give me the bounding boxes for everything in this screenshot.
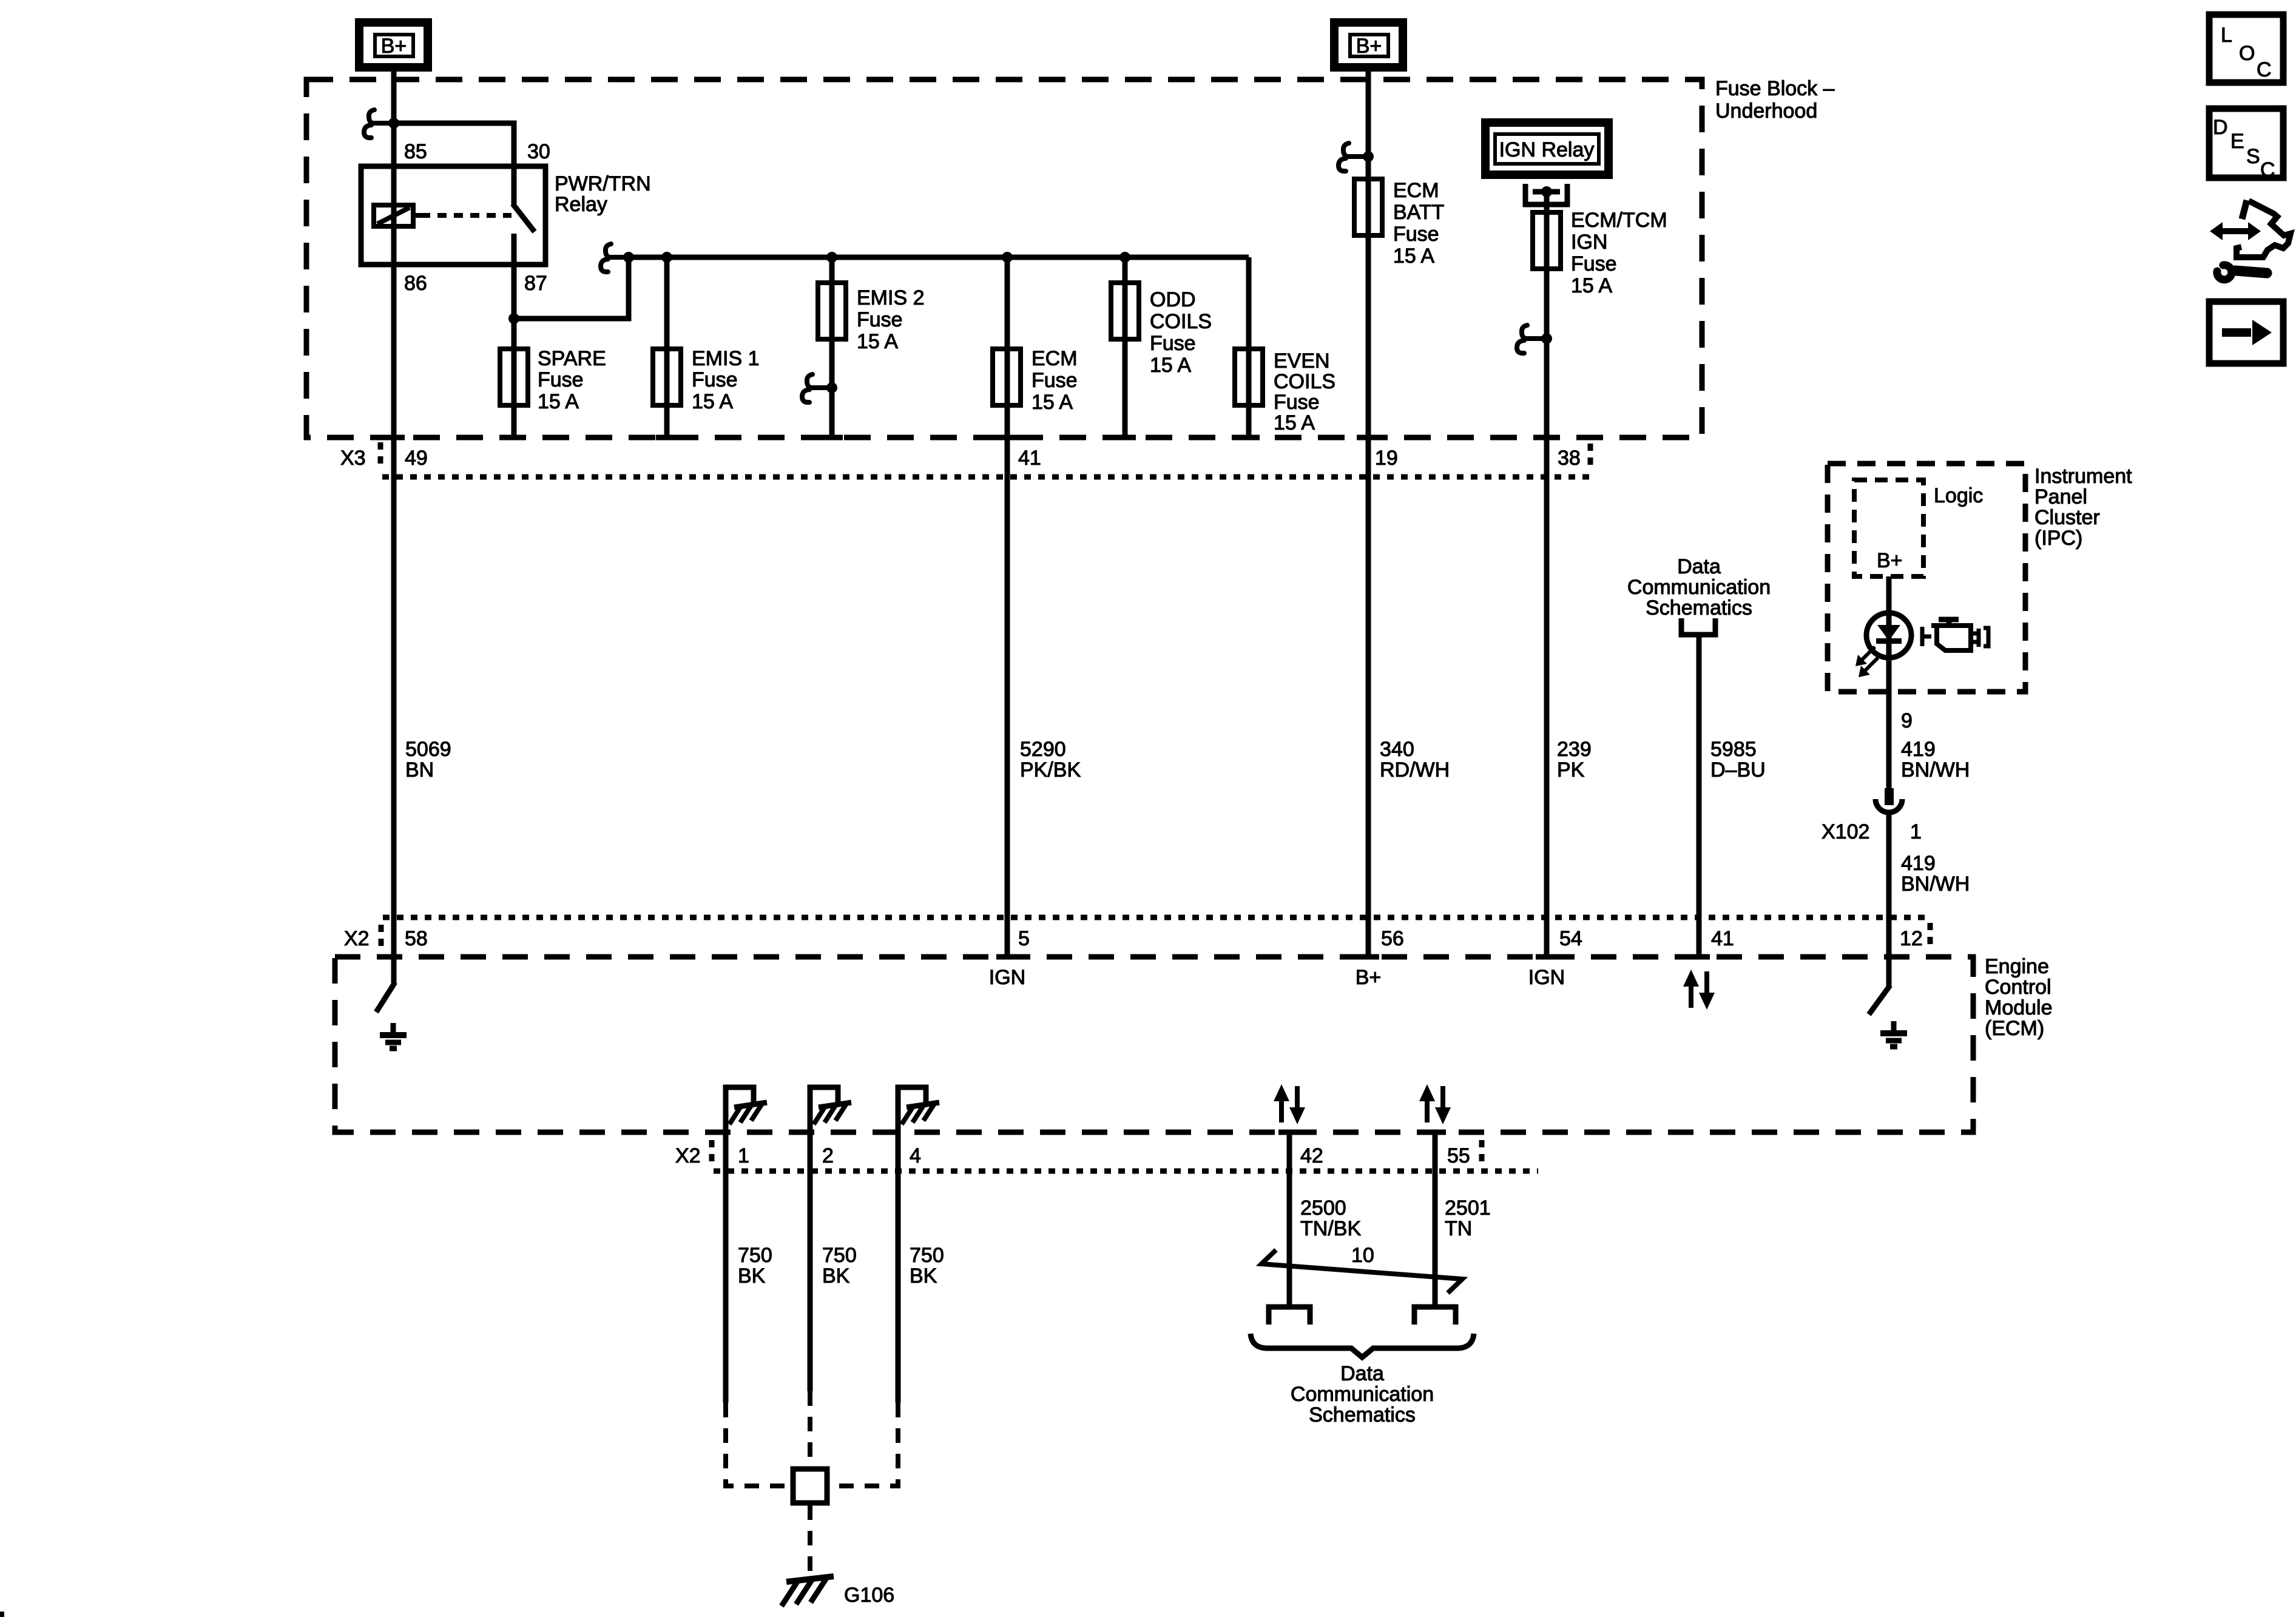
border tick at X2 pin 55 <box>1424 1130 1446 1135</box>
fuse F2 EMIS 1 15A <box>653 347 759 413</box>
ECM internal switch to ground at pin 12 <box>1869 957 1890 1014</box>
svg-text:IGN: IGN <box>1528 966 1565 989</box>
svg-text:EMIS 2: EMIS 2 <box>857 286 924 309</box>
wire label circuit 5985 D-BU <box>1710 738 1766 781</box>
icon DESC box <box>2209 109 2283 181</box>
svg-text:1: 1 <box>1910 820 1922 843</box>
svg-text:15 A: 15 A <box>1393 245 1434 268</box>
chassis ground symbol pin 4 <box>902 1102 939 1124</box>
wire label circuit 239 PK <box>1557 738 1592 781</box>
svg-text:X2: X2 <box>344 927 370 950</box>
wire bus through ECM fuse down to X2 pin 5 <box>1005 257 1010 957</box>
svg-text:41: 41 <box>1018 447 1041 470</box>
wire label circuit 419 BN/WH (lower) <box>1901 852 1970 896</box>
svg-text:S: S <box>2246 145 2260 168</box>
junction node bus/ECM fuse <box>1002 252 1013 263</box>
svg-text:B+: B+ <box>1877 549 1903 572</box>
svg-text:Panel: Panel <box>2034 485 2087 508</box>
dashed ground wire pin 1 to splice <box>726 1403 791 1486</box>
svg-text:B+: B+ <box>1356 35 1382 58</box>
svg-text:(ECM): (ECM) <box>1985 1017 2044 1040</box>
border tick at EMIS2 fuse wire end <box>821 435 843 441</box>
clip connector below ECM/TCM IGN fuse <box>1517 325 1547 353</box>
svg-text:419: 419 <box>1901 738 1936 761</box>
data arrows at pin 55 <box>1419 1084 1451 1124</box>
clip connector below EMIS2 fuse <box>802 374 832 402</box>
fuse block dashed border <box>306 77 1835 437</box>
wire IGN relay output through ECM/TCM IGN fuse to X2 pin 54 <box>1544 192 1550 957</box>
wire 87 branch to feed bus <box>514 257 629 319</box>
icon forward arrow box <box>2209 302 2283 363</box>
svg-text:ECM: ECM <box>1032 347 1078 370</box>
wire X2 pin 55 to data link <box>1433 1132 1438 1305</box>
svg-text:PWR/TRN: PWR/TRN <box>555 172 651 195</box>
ground symbol at pin 12 switch <box>1880 1021 1907 1047</box>
icon diagnostic connector with double arrow and wrench <box>2210 200 2291 280</box>
svg-text:58: 58 <box>405 927 428 950</box>
svg-text:5: 5 <box>1018 927 1030 950</box>
svg-text:38: 38 <box>1558 447 1581 470</box>
dashed ground wire pin 4 to splice <box>829 1403 898 1486</box>
svg-text:15 A: 15 A <box>538 390 579 413</box>
border tick at ODD COILS fuse wire end <box>1114 435 1136 441</box>
svg-text:Communication: Communication <box>1627 576 1771 599</box>
svg-text:Logic: Logic <box>1934 484 1983 507</box>
fuse F5 ODD COILS 15A <box>1111 283 1212 377</box>
svg-text:9: 9 <box>1901 709 1913 732</box>
wire bus right end to EVEN COILS fuse to X3 <box>1246 257 1252 437</box>
svg-text:BK: BK <box>822 1264 850 1288</box>
svg-text:19: 19 <box>1375 447 1398 470</box>
svg-text:340: 340 <box>1380 738 1414 761</box>
svg-text:Module: Module <box>1985 996 2053 1019</box>
svg-text:Data: Data <box>1340 1362 1384 1385</box>
border tick at X2 pin 56 <box>1357 954 1379 960</box>
svg-text:C: C <box>2257 58 2272 81</box>
border tick at X2 pin 41 <box>1688 954 1710 960</box>
wire label circuit 2500 TN/BK <box>1300 1197 1361 1240</box>
IGN relay output socket symbol <box>1523 184 1570 207</box>
border tick at X3 pin 38 <box>1535 435 1557 441</box>
svg-text:BATT: BATT <box>1393 201 1444 224</box>
svg-text:5985: 5985 <box>1710 738 1757 761</box>
wire label circuit 750 BK (pin 2) <box>822 1244 857 1288</box>
svg-text:85: 85 <box>404 140 427 163</box>
wire 5985 to X2 pin 41 <box>1697 635 1702 957</box>
svg-text:IGN: IGN <box>1571 231 1607 254</box>
svg-text:15 A: 15 A <box>1274 411 1315 434</box>
relay coil-contact dashed link <box>421 213 512 218</box>
connector X3 of fuse block <box>340 442 1590 477</box>
svg-text:2: 2 <box>822 1144 834 1167</box>
svg-text:BN/WH: BN/WH <box>1901 873 1970 896</box>
junction node at pin 85 branch <box>388 118 399 129</box>
svg-text:2501: 2501 <box>1445 1197 1491 1220</box>
svg-text:750: 750 <box>738 1244 772 1267</box>
svg-text:Cluster: Cluster <box>2034 506 2100 529</box>
svg-text:ECM: ECM <box>1393 179 1439 202</box>
junction node IGN relay output <box>1541 186 1552 197</box>
connector X2 of ECM (top row) <box>344 917 1930 951</box>
svg-text:X2: X2 <box>675 1144 701 1167</box>
svg-text:ECM/TCM: ECM/TCM <box>1571 209 1667 232</box>
wire X2 pin 42 to data link <box>1287 1132 1292 1305</box>
socket terminal at wire 55 end <box>1414 1307 1456 1325</box>
junction node bus/riser <box>623 252 634 263</box>
wire label circuit 750 BK (pin 1) <box>738 1244 772 1288</box>
ground symbol at pin 58 switch <box>380 1023 407 1048</box>
svg-text:Communication: Communication <box>1291 1383 1434 1406</box>
border tick at X3 pin 49 <box>383 435 405 441</box>
ground G106 chassis symbol <box>782 1576 894 1607</box>
svg-text:5069: 5069 <box>405 738 451 761</box>
svg-text:RD/WH: RD/WH <box>1380 758 1450 781</box>
svg-text:49: 49 <box>405 447 428 470</box>
border tick at X3 pin 41 <box>996 435 1018 441</box>
svg-text:B+: B+ <box>1356 966 1382 989</box>
svg-text:2500: 2500 <box>1300 1197 1346 1220</box>
svg-text:EMIS 1: EMIS 1 <box>692 347 759 370</box>
dashed wire splice to G106 <box>808 1505 812 1576</box>
svg-text:B+: B+ <box>381 35 407 58</box>
chassis ground symbol pin 2 <box>814 1102 851 1124</box>
ECM internal ground lead pin 4 <box>898 1087 926 1403</box>
svg-text:12: 12 <box>1900 927 1923 950</box>
off-page bracket under Data Communication Schematics <box>1681 618 1715 635</box>
wire B+ through ECM BATT fuse down to X2 pin 56 <box>1366 64 1371 957</box>
connector X2 of ECM (bottom row) <box>675 1140 1538 1171</box>
svg-text:Fuse: Fuse <box>692 368 738 391</box>
svg-text:D–BU: D–BU <box>1710 758 1766 781</box>
svg-text:Relay: Relay <box>555 193 607 216</box>
svg-text:419: 419 <box>1901 852 1936 875</box>
wire label circuit 340 RD/WH <box>1380 738 1450 781</box>
junction node below EMIS2 <box>826 382 837 393</box>
wire label circuit 5290 PK/BK <box>1020 738 1081 781</box>
junction node above ECM BATT fuse <box>1363 151 1374 162</box>
svg-text:15 A: 15 A <box>1571 274 1612 297</box>
svg-text:15 A: 15 A <box>692 390 733 413</box>
svg-text:G106: G106 <box>844 1584 894 1607</box>
svg-text:O: O <box>2239 42 2255 65</box>
fuse F4 ECM 15A <box>993 347 1078 414</box>
svg-text:41: 41 <box>1711 927 1734 950</box>
svg-text:BN: BN <box>405 758 434 781</box>
svg-text:TN/BK: TN/BK <box>1300 1217 1361 1240</box>
icon LOC box <box>2209 15 2283 83</box>
svg-text:BK: BK <box>910 1264 937 1288</box>
svg-text:239: 239 <box>1557 738 1592 761</box>
svg-text:15 A: 15 A <box>1150 354 1191 377</box>
junction node bus/ODD COILS <box>1119 252 1130 263</box>
svg-text:PK: PK <box>1557 758 1585 781</box>
relay K: PWR/TRN Relay box <box>361 166 651 265</box>
svg-text:Fuse: Fuse <box>538 368 584 391</box>
svg-text:5290: 5290 <box>1020 738 1066 761</box>
svg-text:BK: BK <box>738 1264 766 1288</box>
border tick at X2 pin 5 <box>996 954 1018 960</box>
border tick at X2 pin 54 <box>1536 954 1558 960</box>
svg-text:Schematics: Schematics <box>1309 1403 1416 1426</box>
border tick at X2 pin 42 <box>1278 1130 1300 1135</box>
svg-text:30: 30 <box>527 140 550 163</box>
svg-text:Fuse: Fuse <box>1150 332 1196 355</box>
svg-text:C: C <box>2260 158 2275 181</box>
svg-text:1: 1 <box>738 1144 749 1167</box>
socket terminal at wire 42 end <box>1269 1307 1310 1325</box>
svg-text:E: E <box>2230 130 2244 153</box>
svg-text:Fuse: Fuse <box>1274 391 1320 414</box>
junction node bus/EMIS2 <box>826 252 837 263</box>
junction node at 87 branch <box>508 313 519 324</box>
wire label circuit 419 BN/WH (upper) <box>1901 738 1970 781</box>
clip connector above ECM BATT fuse <box>1339 143 1368 171</box>
svg-text:Engine: Engine <box>1985 955 2049 978</box>
data arrows at pin 41 <box>1683 970 1715 1010</box>
wire bus to EMIS1 fuse to X3 <box>664 257 670 437</box>
B+ power symbol (right) <box>1334 22 1403 67</box>
IPC dashed box <box>1828 464 2132 692</box>
junction node below ECM/TCM IGN fuse <box>1541 333 1552 344</box>
svg-text:Schematics: Schematics <box>1646 596 1752 619</box>
clip connector at relay pin 85 <box>364 110 394 138</box>
wire jumper from 85 node to relay pin 30 <box>394 123 514 169</box>
chassis ground symbol pin 1 <box>729 1102 767 1124</box>
fuse F8 ECM/TCM IGN 15A <box>1533 209 1667 297</box>
svg-text:PK/BK: PK/BK <box>1020 758 1081 781</box>
border tick at EMIS1 fuse wire end <box>656 435 678 441</box>
svg-text:IGN: IGN <box>989 966 1025 989</box>
svg-text:EVEN: EVEN <box>1274 349 1330 373</box>
svg-text:42: 42 <box>1300 1144 1323 1167</box>
svg-text:COILS: COILS <box>1150 310 1212 333</box>
relay coil <box>374 205 421 226</box>
svg-text:L: L <box>2221 24 2232 47</box>
ECM dashed box <box>335 955 2053 1132</box>
border tick at SPARE fuse wire end <box>502 435 524 441</box>
fuse F3 EMIS 2 15A <box>818 283 924 353</box>
wire X102 to X2 pin 12 <box>1886 812 1892 957</box>
in-line connector X102 <box>1822 788 1922 843</box>
ECM internal ground lead pin 1 <box>726 1087 754 1403</box>
svg-text:Fuse: Fuse <box>1393 223 1439 246</box>
relay switch blade (pin 30 to 87) <box>513 169 535 265</box>
svg-text:(IPC): (IPC) <box>2034 527 2082 550</box>
clip connector at feed bus left end <box>606 244 611 257</box>
node label Data Communication Schematics (bottom) <box>1291 1362 1434 1426</box>
ECM internal switch to ground at pin 58 <box>376 957 395 1012</box>
twisted pair symbol <box>1261 1250 1462 1293</box>
wire label circuit 2501 TN <box>1445 1197 1491 1240</box>
svg-text:750: 750 <box>822 1244 857 1267</box>
border tick at X3 pin 19 <box>1357 435 1379 441</box>
svg-text:750: 750 <box>910 1244 944 1267</box>
svg-text:15 A: 15 A <box>857 330 898 353</box>
svg-text:ODD: ODD <box>1150 288 1196 311</box>
svg-text:Underhood: Underhood <box>1715 100 1817 123</box>
engine icon (check engine lamp) <box>1922 619 1988 650</box>
svg-text:Data: Data <box>1677 555 1721 578</box>
svg-text:Fuse: Fuse <box>1032 369 1078 392</box>
svg-text:86: 86 <box>404 272 427 295</box>
wire logic B+ through MIL LED to IPC pin 9 <box>1886 576 1892 788</box>
svg-text:54: 54 <box>1559 927 1582 950</box>
wire label circuit 5069 BN <box>405 738 451 781</box>
fuse F1 SPARE 15A <box>500 347 606 413</box>
junction node bus/EMIS1 <box>661 252 672 263</box>
fuse F6 EVEN COILS 15A <box>1235 349 1335 434</box>
svg-text:15 A: 15 A <box>1032 391 1073 414</box>
wire bus to EMIS2 fuse to X3 <box>829 257 835 437</box>
splice S: ground splice box <box>793 1469 827 1503</box>
svg-text:Fuse Block –: Fuse Block – <box>1715 77 1835 100</box>
svg-text:87: 87 <box>524 272 547 295</box>
svg-text:56: 56 <box>1381 927 1404 950</box>
svg-text:Instrument: Instrument <box>2034 465 2132 488</box>
brace grouping data communication wires <box>1251 1334 1474 1357</box>
wire label circuit 750 BK (pin 4) <box>910 1244 944 1288</box>
IPC logic dashed box <box>1854 480 1983 576</box>
svg-text:55: 55 <box>1447 1144 1470 1167</box>
border tick at EVEN COILS fuse wire end <box>1238 435 1260 441</box>
svg-text:Control: Control <box>1985 976 2051 999</box>
svg-text:COILS: COILS <box>1274 370 1335 393</box>
wire B+ down through PWR/TRN relay coil to X3 pin 49 and X2 pin 58 <box>391 64 397 957</box>
wire pin 87 down to SPARE fuse and X3 <box>512 265 517 437</box>
ECM internal ground lead pin 2 <box>810 1087 838 1391</box>
svg-text:Fuse: Fuse <box>1571 252 1617 275</box>
svg-text:SPARE: SPARE <box>538 347 606 370</box>
B+ power symbol (left) <box>359 22 428 67</box>
wire bus to ODD COILS fuse to X3 <box>1123 257 1128 437</box>
LED indicator (MIL) <box>1855 613 1911 677</box>
svg-text:X102: X102 <box>1822 820 1869 843</box>
svg-text:TN: TN <box>1445 1217 1472 1240</box>
feed bus wire <box>625 255 1249 260</box>
fuse F7 ECM BATT 15A <box>1354 179 1444 268</box>
svg-text:10: 10 <box>1351 1244 1374 1267</box>
svg-text:4: 4 <box>910 1144 921 1167</box>
dashed ground wire pin 2 to splice <box>808 1391 812 1467</box>
svg-text:Fuse: Fuse <box>857 308 903 331</box>
svg-text:D: D <box>2213 116 2228 139</box>
svg-text:X3: X3 <box>340 447 366 470</box>
data arrows at pin 42 <box>1274 1084 1305 1124</box>
IGN Relay label box <box>1485 123 1609 175</box>
svg-text:BN/WH: BN/WH <box>1901 758 1970 781</box>
node label Data Communication Schematics (top) <box>1627 555 1771 619</box>
svg-text:IGN Relay: IGN Relay <box>1499 138 1595 161</box>
